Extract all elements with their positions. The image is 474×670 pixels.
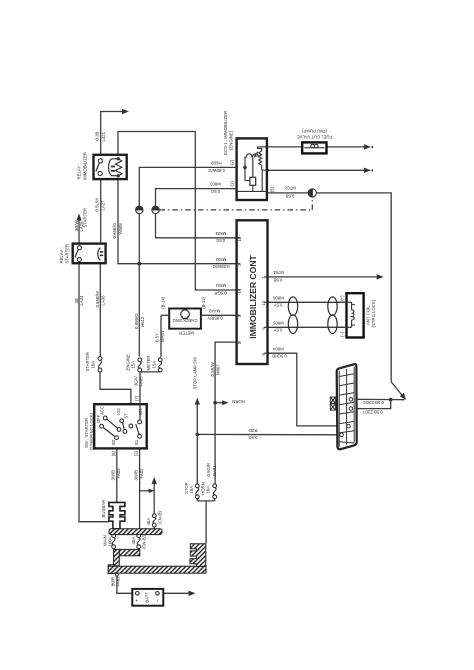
svg-text:LA24: LA24 (79, 295, 84, 306)
svg-text:0.5B: 0.5B (273, 277, 282, 282)
svg-text:BUSBAR: BUSBAR (101, 500, 106, 518)
svg-text:0.85W/G: 0.85W/G (212, 264, 230, 269)
svg-text:0.85R/Y: 0.85R/Y (207, 316, 223, 321)
svg-text:(2): (2) (230, 159, 235, 165)
svg-text:0.5G: 0.5G (215, 238, 225, 243)
svg-text:(B-14): (B-14) (161, 296, 166, 309)
svg-text:M804: M804 (273, 346, 284, 351)
svg-text:(7): (7) (134, 395, 139, 401)
svg-text:0.85B/G: 0.85B/G (134, 313, 139, 329)
svg-text:IMMOBILIZER CONT: IMMOBILIZER CONT (248, 254, 258, 338)
svg-text:0.5Y: 0.5Y (273, 328, 282, 333)
svg-text:M751: M751 (273, 270, 284, 275)
svg-text:ST: ST (124, 413, 129, 419)
svg-text:ANT COIL: ANT COIL (366, 305, 371, 325)
svg-text:100A: 100A (107, 536, 112, 546)
svg-text:LA27: LA27 (100, 200, 105, 211)
svg-text:0.85W/G: 0.85W/G (207, 168, 225, 173)
svg-text:0.65B/G: 0.65B/G (112, 222, 117, 238)
svg-text:(+): (+) (340, 295, 345, 301)
svg-text:W608: W608 (118, 223, 123, 235)
svg-text:0.5Y: 0.5Y (154, 333, 159, 342)
svg-text:ICN-B1: ICN-B1 (141, 534, 146, 549)
svg-text:13: 13 (261, 300, 266, 305)
svg-text:STOP LAMP SW: STOP LAMP SW (192, 356, 197, 389)
svg-text:B2: B2 (111, 439, 116, 445)
svg-text:CHECK ENG: CHECK ENG (173, 318, 198, 323)
svg-text:0.5GR: 0.5GR (214, 290, 226, 295)
svg-text:15A: 15A (152, 361, 157, 369)
svg-text:MA51: MA51 (160, 330, 165, 342)
svg-text:0.5Y: 0.5Y (273, 303, 282, 308)
svg-text:(−): (−) (340, 331, 345, 337)
svg-text:METER: METER (146, 355, 151, 370)
svg-text:ICN-B2: ICN-B2 (158, 510, 163, 525)
svg-text:3W/B: 3W/B (111, 470, 116, 481)
svg-text:HORN: HORN (232, 399, 245, 404)
svg-text:R2D: R2D (249, 428, 258, 433)
svg-text:RELAY ;: RELAY ; (77, 163, 82, 179)
svg-text:FUEL CUT VALVE: FUEL CUT VALVE (297, 135, 332, 140)
svg-text:(STEERING LOCK): (STEERING LOCK) (89, 412, 94, 450)
svg-text:0.5B: 0.5B (285, 193, 294, 198)
svg-text:10A: 10A (91, 361, 96, 369)
svg-text:0.5B Z2D7: 0.5B Z2D7 (362, 409, 383, 414)
svg-text:LA36: LA36 (101, 295, 106, 306)
svg-text:(1): (1) (230, 181, 235, 187)
svg-text:+: + (134, 599, 140, 602)
svg-text:0.3B: 0.3B (95, 132, 100, 141)
svg-text:0.5Or/B: 0.5Or/B (272, 354, 287, 359)
svg-text:15A: 15A (189, 486, 194, 494)
svg-text:STARTER: STARTER (85, 352, 90, 372)
svg-text:RELAY ;: RELAY ; (59, 247, 64, 263)
svg-text:40A: 40A (131, 537, 136, 545)
svg-text:0.5R/W: 0.5R/W (210, 361, 215, 376)
svg-text:FA02: FA02 (139, 468, 144, 479)
svg-text:FA61: FA61 (116, 576, 121, 587)
svg-text:0.5G: 0.5G (247, 435, 257, 440)
svg-text:DA81: DA81 (212, 465, 217, 476)
svg-text:STARTER: STARTER (65, 244, 70, 264)
svg-text:H609: H609 (211, 161, 222, 166)
svg-text:10: 10 (237, 236, 242, 241)
svg-text:M801: M801 (215, 283, 226, 288)
svg-text:BATT: BATT (145, 592, 150, 603)
svg-text:FA03: FA03 (116, 468, 121, 479)
svg-text:M802: M802 (215, 257, 226, 262)
svg-text:(STRG LOCK): (STRG LOCK) (371, 299, 376, 327)
svg-text:M607: M607 (215, 364, 220, 375)
svg-text:B1: B1 (134, 439, 139, 445)
svg-text:0.5L/W: 0.5L/W (95, 197, 100, 212)
svg-text:ACC: ACC (100, 406, 105, 415)
svg-text:(B-12): (B-12) (201, 296, 206, 309)
svg-text:(FMJ PUMP): (FMJ PUMP) (302, 129, 327, 134)
svg-text:M803: M803 (215, 231, 226, 236)
svg-text:M702: M702 (285, 186, 296, 191)
svg-text:(2): (2) (133, 450, 138, 456)
svg-text:3W/B: 3W/B (134, 470, 139, 481)
svg-text:−: − (155, 599, 161, 602)
svg-text:FA05: FA05 (139, 376, 144, 387)
svg-text:40A: 40A (146, 518, 151, 526)
svg-text:0.85B/W: 0.85B/W (95, 290, 100, 307)
svg-text:M805: M805 (273, 320, 284, 325)
svg-text:L421: L421 (101, 131, 106, 141)
svg-text:M806: M806 (273, 295, 284, 300)
svg-text:H612: H612 (140, 316, 145, 327)
svg-text:IMMOBILIZER: IMMOBILIZER (83, 152, 88, 180)
svg-text:(5): (5) (270, 186, 275, 192)
svg-text:M803: M803 (210, 182, 221, 187)
svg-text:0.5G: 0.5G (210, 189, 220, 194)
svg-text:ECS-1 ; IMMOBILIZER: ECS-1 ; IMMOBILIZER (223, 111, 228, 155)
svg-text:IG2: IG2 (116, 407, 121, 414)
svg-text:14: 14 (237, 288, 242, 293)
svg-text:STARTER: STARTER (83, 208, 88, 228)
svg-text:(6): (6) (111, 450, 116, 456)
svg-text:MA42: MA42 (208, 308, 220, 313)
svg-text:(ENGINE): (ENGINE) (229, 130, 234, 150)
svg-text:IG1: IG1 (138, 408, 143, 415)
svg-text:METER: METER (179, 330, 194, 335)
svg-text:0.5B Z2D6: 0.5B Z2D6 (363, 400, 384, 405)
svg-text:0.5G/R: 0.5G/R (206, 463, 211, 477)
svg-text:15A: 15A (131, 361, 136, 369)
svg-text:10A: 10A (205, 486, 210, 494)
